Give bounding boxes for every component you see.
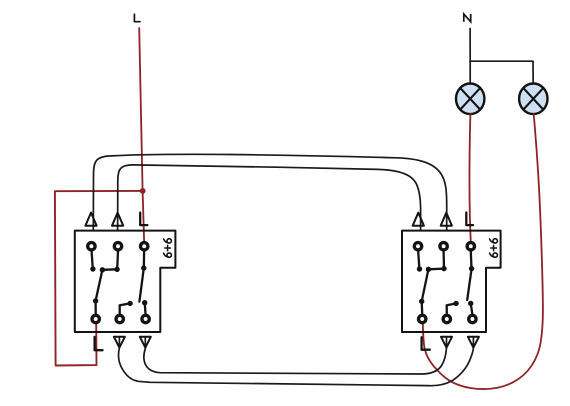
wire N down to branch bbox=[469, 29, 471, 62]
terminal SW1 t1 bbox=[88, 243, 95, 250]
wire SW1 b3 stub bbox=[144, 303, 147, 314]
terminal SW2 t1 bbox=[414, 243, 421, 250]
wire SW2 t3 stub bbox=[470, 252, 473, 269]
wire SW2 t1 stub bbox=[418, 252, 419, 269]
arrow up SW2 t1 bbox=[413, 213, 424, 226]
wire N branch horizontal bbox=[470, 60, 533, 62]
terminal SW1 b2 bbox=[116, 315, 123, 322]
arrow down SW1 b2 bbox=[114, 337, 125, 348]
label N (neutral, top right) bbox=[464, 14, 471, 22]
node SW2 contact g bbox=[469, 266, 474, 271]
wire red loop: junction left, down, to SW1 bottom L terminal bbox=[55, 191, 143, 366]
label L (line feed, top left) bbox=[134, 14, 140, 22]
node SW2 contact c bbox=[419, 299, 424, 304]
terminal SW2 t2 bbox=[440, 243, 447, 250]
wire SW1 t1 stub bbox=[92, 252, 93, 269]
wire traveler top: SW1 t1 to SW2 t2 bbox=[93, 154, 446, 230]
label L (SW2 bottom terminal) bbox=[422, 337, 430, 349]
lever SW2 pole2 (open) bbox=[467, 269, 471, 300]
arrow down SW2 b2 bbox=[441, 337, 452, 348]
wire SW2 b1 stub bbox=[421, 301, 424, 313]
lever SW1 pole2 (open) bbox=[139, 268, 143, 302]
switch SW2 outline bbox=[402, 231, 501, 332]
terminal SW2 b2 bbox=[443, 315, 450, 322]
node SW1 contact d bbox=[114, 267, 119, 272]
wire through SW1 b2 arrow bbox=[118, 337, 120, 348]
label L (SW1 top terminal) bbox=[140, 213, 147, 225]
wire lamp E1 to SW2 L terminal bbox=[469, 114, 470, 241]
node SW1 pivot b bbox=[100, 267, 105, 272]
label 6+6 (SW1) bbox=[164, 239, 172, 258]
lever SW2 pole1 bbox=[422, 269, 429, 301]
wire SW1 b1 stub bbox=[94, 301, 96, 314]
node SW2 contact f bbox=[468, 301, 473, 306]
arrow down SW1 b3 bbox=[140, 337, 151, 348]
wire strap bottom: SW1 t3 to SW2 t2 bbox=[144, 348, 447, 374]
wire SW2 contact link d-b bbox=[428, 267, 444, 270]
node junction (red) bbox=[140, 188, 146, 194]
node SW1 contact f bbox=[142, 300, 147, 305]
switch SW1 outline bbox=[75, 231, 176, 332]
terminal SW2 t3 (L) bbox=[467, 243, 474, 250]
wire SW1 t3 stub bbox=[143, 252, 146, 269]
wire SW2 b3 stub bbox=[471, 303, 473, 313]
node SW1 contact c bbox=[93, 298, 98, 303]
wire through SW2 b2 arrow bbox=[446, 337, 448, 348]
terminal SW1 t2 bbox=[114, 243, 121, 250]
wire through SW1 b3 arrow bbox=[144, 337, 146, 348]
wire SW2 b2 elbow bbox=[447, 304, 456, 314]
wire SW1 b2 elbow bbox=[120, 304, 130, 314]
wire through SW2 b3 arrow bbox=[472, 337, 474, 348]
terminal SW1 b3 bbox=[142, 315, 149, 322]
node SW2 contact d bbox=[441, 266, 446, 271]
node SW2 contact a bbox=[417, 266, 422, 271]
wire SW1 contact link d-b bbox=[102, 268, 117, 271]
terminal SW1 t3 (L) bbox=[141, 243, 148, 250]
label L (SW2 top terminal) bbox=[466, 213, 473, 226]
wire junction to SW1 L terminal bbox=[143, 191, 145, 241]
lever SW1 pole1 bbox=[96, 270, 103, 301]
wire lamp E2 to SW2 bottom L terminal (big loop) bbox=[423, 114, 543, 389]
label L (SW1 bottom terminal) bbox=[95, 337, 103, 350]
node SW2 pivot b bbox=[426, 267, 431, 272]
terminal SW2 b3 bbox=[469, 315, 476, 322]
node SW1 contact g bbox=[141, 265, 146, 270]
arrow up SW1 t2 bbox=[112, 213, 123, 226]
wire strap bottom: SW1 t2 to SW2 t3 bbox=[119, 348, 474, 386]
lamp E1 bbox=[456, 84, 484, 115]
arrow down SW2 b3 bbox=[468, 337, 479, 348]
arrow up SW2 t2 bbox=[441, 213, 452, 226]
wire SW1 t2 stub bbox=[116, 252, 119, 270]
label 6+6 (SW2) bbox=[490, 239, 498, 258]
lamp E2 bbox=[519, 84, 547, 115]
arrow up SW1 t1 bbox=[85, 213, 96, 226]
wire L feed down to junction bbox=[139, 28, 142, 191]
wire SW2 t2 stub bbox=[442, 252, 445, 269]
wire traveler top: SW1 t2 to SW2 t1 bbox=[118, 165, 421, 231]
node SW1 contact e bbox=[127, 301, 132, 306]
node SW1 contact a bbox=[90, 266, 95, 271]
terminal SW2 b1 (L) bbox=[419, 315, 426, 322]
terminal SW1 b1 (L) bbox=[92, 315, 99, 322]
wire N drop to lamp E2 bbox=[532, 61, 534, 83]
node SW2 contact e bbox=[453, 301, 458, 306]
wire N drop to lamp E1 bbox=[469, 61, 471, 83]
